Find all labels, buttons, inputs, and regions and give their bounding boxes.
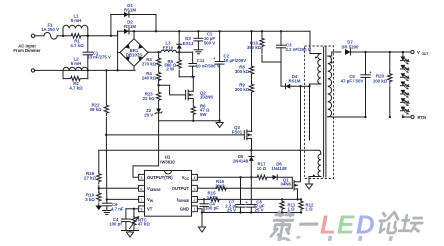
wire rail to primary (310, 31, 321, 53)
wire Q3 source (250, 139, 252, 152)
resistor R5 (164, 52, 181, 71)
wire secondary bottom (328, 116, 366, 118)
svg-text:1N4148: 1N4148 (271, 166, 287, 171)
resistor R19 (85, 192, 101, 202)
svg-text:6: 6 (141, 187, 143, 191)
wire secondary top (328, 52, 341, 56)
svg-text:25 V: 25 V (227, 208, 236, 213)
ground (194, 50, 202, 54)
resistor R3 (142, 52, 161, 66)
svg-text:5W: 5W (200, 112, 207, 117)
pin OUTPUT (172, 186, 190, 191)
svg-text:25 V: 25 V (255, 208, 264, 213)
resistor R15 (207, 191, 220, 202)
node RTN terminal (411, 115, 426, 120)
svg-text:1: 1 (193, 207, 195, 211)
resistor R23 (143, 91, 161, 101)
wire bottom AC line (63, 69, 135, 71)
capacitor C4 timing (109, 209, 130, 231)
svg-text:1 kΩ: 1 kΩ (207, 195, 217, 200)
svg-text:2.2 nF/250 V: 2.2 nF/250 V (286, 47, 311, 52)
diode D6 (268, 161, 292, 179)
pin VIN (147, 197, 154, 203)
resistor R2 (63, 70, 88, 90)
svg-text:VT: VT (147, 207, 153, 212)
svg-text:RS1M: RS1M (124, 7, 136, 12)
diode D5 (233, 150, 254, 177)
bridge rectifier BR1 (120, 39, 148, 67)
zener Z2 (144, 101, 162, 118)
svg-text:350 kΩ: 350 kΩ (247, 45, 262, 50)
node vsense divider (98, 186, 100, 193)
svg-text:iW3610: iW3610 (160, 160, 175, 165)
svg-text:102N6: 102N6 (200, 95, 213, 100)
svg-text:1N4148: 1N4148 (233, 159, 249, 164)
svg-text:100 pf: 100 pf (109, 221, 122, 226)
node Vout terminal (411, 50, 428, 56)
pin VSENSE (147, 186, 161, 192)
watermark (271, 212, 444, 246)
wire aux bottom (309, 177, 321, 185)
wire clamp bus (262, 55, 281, 86)
svg-text:3 kΩ: 3 kΩ (85, 197, 95, 202)
resistor R6 (191, 102, 210, 120)
svg-text:47 µF / 50V: 47 µF / 50V (341, 78, 364, 83)
wire RTN line (403, 116, 411, 118)
svg-text:OUTPUT: OUTPUT (172, 186, 190, 191)
svg-text:+: + (369, 70, 372, 75)
svg-text:DB107S: DB107S (126, 53, 143, 58)
LED string (401, 51, 409, 118)
ground aux (305, 184, 312, 189)
diode D2 (124, 20, 136, 34)
resistor R12 (299, 199, 314, 213)
svg-text:+: + (245, 200, 248, 205)
wire R1 to D1 node (87, 35, 113, 37)
svg-text:Diode-led.com: Diode-led.com (274, 231, 444, 241)
svg-text:300 kΩ: 300 kΩ (235, 69, 250, 74)
ground R19 (95, 204, 102, 211)
wire OUTPUT line (197, 187, 292, 189)
resistor R20 (373, 51, 392, 118)
node AC line terminal L (31, 34, 34, 37)
svg-text:5: 5 (141, 176, 143, 180)
svg-text:OUTPUT(TR): OUTPUT(TR) (147, 175, 173, 180)
svg-text:04N6: 04N6 (281, 182, 292, 187)
resistor R17 (256, 161, 268, 179)
svg-text:100 pF: 100 pF (205, 206, 219, 211)
diode D3 (177, 31, 194, 52)
wire drain drop (309, 86, 311, 140)
diode D4 (281, 74, 311, 89)
wire bleed bus (159, 120, 221, 122)
pin ISENSE (177, 197, 189, 203)
svg-text:SR 5200: SR 5200 (342, 44, 359, 49)
inductor L1 (63, 14, 88, 36)
capacitor C2 (213, 31, 246, 121)
svg-text:4: 4 (193, 176, 195, 180)
diode D1 (111, 3, 156, 36)
svg-text:1 Ω: 1 Ω (306, 207, 314, 212)
capacitor C4 filter (200, 199, 219, 212)
wire primary bottom (310, 84, 321, 86)
wire VT line (126, 208, 139, 210)
svg-text:4.7 kΩ: 4.7 kΩ (70, 43, 84, 48)
svg-text:100 kΩ: 100 kΩ (373, 78, 388, 83)
svg-text:240 kΩ: 240 kΩ (142, 76, 157, 81)
svg-text:500 V: 500 V (204, 41, 215, 46)
wire VIN line (106, 198, 139, 200)
wire Q1 source (294, 189, 299, 201)
resistor R18 (84, 150, 101, 184)
ground C2 (216, 123, 223, 128)
wire rectified rail (118, 30, 310, 32)
pin OUTPUT(TR) (147, 175, 173, 180)
fuse F1 (41, 22, 59, 39)
wire bridge bottom stub (133, 66, 135, 70)
transistor Q3 (232, 125, 252, 140)
capacitor C7 (225, 177, 245, 212)
wire Q3 gate line (105, 134, 244, 136)
capacitor C3 (276, 31, 310, 62)
wire Z2 to OUTPUT-TR riser (133, 113, 159, 177)
capacitor C8 (245, 177, 265, 212)
resistor R10 (247, 31, 264, 53)
svg-text:5 mH: 5 mH (71, 18, 82, 23)
svg-text:8: 8 (141, 207, 143, 211)
winding primary (315, 54, 321, 84)
diode D7 (342, 40, 411, 55)
inductor L2 (63, 56, 88, 70)
svg-text:20 V: 20 V (144, 112, 153, 117)
resistor R8 (235, 31, 254, 74)
resistor R11 (280, 199, 296, 213)
wire R5 bottom (178, 70, 180, 76)
svg-text:4.7 kΩ: 4.7 kΩ (69, 86, 83, 91)
wire bridge right to L3 (148, 51, 161, 53)
capacitor C11 (189, 52, 220, 76)
wire VSENSE line (99, 187, 139, 189)
svg-text:4.7 nF: 4.7 nF (111, 206, 124, 211)
wire bridge left stub (118, 31, 120, 70)
svg-text:RTN: RTN (418, 115, 427, 120)
svg-text:270 kΩ: 270 kΩ (142, 62, 157, 67)
resistor R4 (142, 66, 161, 81)
svg-text:27 kΩ: 27 kΩ (84, 176, 96, 181)
wire bottom AC line left (35, 69, 63, 71)
svg-text:22 kΩ: 22 kΩ (143, 96, 155, 101)
svg-text:GND: GND (180, 207, 189, 212)
resistor R9 (235, 75, 254, 93)
wire top AC line left (35, 35, 44, 37)
svg-text:47 kΩ: 47 kΩ (138, 222, 150, 227)
wire vsense-aux line (99, 150, 321, 154)
svg-text:39 kΩ: 39 kΩ (90, 107, 102, 112)
capacitor C1 X-cap (83, 35, 111, 71)
capacitor C1 bulk (194, 31, 215, 50)
svg-text:10 Ω: 10 Ω (257, 166, 267, 171)
AC input label (13, 44, 41, 54)
wire GND bus (197, 209, 301, 214)
svg-text:2: 2 (193, 198, 195, 202)
capacitor C6 (102, 199, 124, 211)
svg-text:1A 250 V: 1A 250 V (41, 27, 59, 32)
svg-text:V: V (417, 50, 420, 55)
wire bridge top stub (133, 31, 135, 38)
node AC neutral terminal (31, 69, 34, 72)
node R4-R23 tap (157, 80, 159, 92)
winding secondary (328, 56, 333, 117)
wire F1 to node (57, 35, 65, 37)
resistor R22 (90, 70, 109, 134)
svg-text:OUT: OUT (422, 52, 429, 56)
svg-text:10 Ω: 10 Ω (215, 183, 225, 188)
svg-text:EE10: EE10 (163, 45, 174, 50)
thermistor NTC (130, 209, 151, 231)
pin VCC (182, 175, 190, 181)
wire ISENSE line (197, 198, 302, 200)
svg-text:2 W: 2 W (166, 67, 175, 72)
wire VCC line (197, 176, 256, 178)
op-amp U1 iW3610 (139, 155, 198, 217)
svg-text:5 mH: 5 mH (71, 61, 82, 66)
svg-text:300 kΩ: 300 kΩ (235, 87, 250, 92)
wire Q1 drain (294, 85, 302, 182)
inductor L3 (161, 41, 177, 53)
svg-text:3: 3 (193, 187, 195, 191)
wire Q2 drain bus (179, 76, 194, 78)
svg-text:7: 7 (141, 198, 143, 202)
svg-text:FS01: FS01 (232, 129, 243, 134)
wire R9 to Q3 drain (251, 93, 253, 131)
wire VT bottom rail (122, 230, 139, 232)
transformer dashed box (305, 46, 334, 179)
resistor R16 (215, 179, 227, 190)
winding aux (313, 154, 321, 176)
svg-text:ES1J: ES1J (183, 41, 194, 46)
wire top AC to rail corner (111, 31, 118, 36)
wire L3 to node (176, 30, 192, 53)
svg-text:RS1M: RS1M (124, 24, 136, 29)
ground VT (126, 231, 133, 238)
svg-text:From Dimmer: From Dimmer (13, 48, 41, 53)
resistor R1 (66, 34, 87, 48)
transformer core (324, 47, 326, 177)
svg-text:10 µF/200V: 10 µF/200V (224, 58, 247, 63)
pin VT (147, 207, 153, 212)
wire R22 column to C6 (105, 135, 107, 200)
transistor Q1 (281, 177, 298, 190)
pin GND (180, 207, 189, 212)
svg-text:33 nF/275 V: 33 nF/275 V (87, 55, 111, 60)
ground GND pin (198, 213, 205, 233)
wire tap to Q2 gate (159, 85, 186, 95)
ground C6 (103, 211, 111, 215)
svg-text:RS1M: RS1M (288, 79, 300, 84)
capacitor C9 (341, 51, 373, 118)
transistor Q2 (186, 77, 214, 102)
